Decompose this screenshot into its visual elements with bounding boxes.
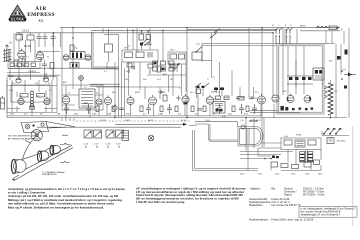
- component blob right: [337, 50, 348, 89]
- spec framed box: [299, 207, 357, 218]
- tuning gang C41: [106, 130, 124, 148]
- tube V13 IF amp: [104, 95, 111, 104]
- wire grid row y60: [37, 52, 180, 88]
- tube V18 AF: [206, 95, 213, 104]
- drive pulley big: [31, 130, 42, 141]
- voltage adjust panel: [327, 138, 346, 144]
- output transformer dark cluster: [250, 106, 300, 113]
- wire mesh left box: [7, 80, 57, 116]
- electrolytic block C30: [313, 68, 324, 80]
- padder grid: [147, 61, 186, 92]
- resistor box group A: [8, 62, 40, 69]
- dial pointer lines: [37, 123, 187, 127]
- wire top right mains: [300, 30, 340, 32]
- svg-text:ULTRA: ULTRA: [11, 18, 24, 22]
- wire y68: [8, 67, 118, 69]
- wire heater rail double: [202, 44, 335, 46]
- svg-text:m. stk. indbygningsplan, skrak: m. stk. indbygningsplan, skraktlængde 50…: [301, 207, 356, 210]
- wire vertical x273: [272, 33, 274, 96]
- wire output stage links: [214, 28, 296, 99]
- svg-text:Projektionslamper: Projektionslamper: [249, 219, 268, 222]
- pointer spring: [60, 135, 71, 172]
- wire vertical x137: [136, 28, 138, 52]
- speaker assembly: [238, 127, 263, 147]
- svg-text:EBC3: EBC3: [160, 92, 166, 94]
- notes block A: [8, 188, 126, 210]
- title AIR EMPRESS 822: [27, 6, 55, 22]
- terminal labels row: [240, 174, 322, 176]
- osc coil box T2: [62, 85, 103, 110]
- wire vertical x285 x297: [285, 29, 297, 43]
- resistor R1: [16, 33, 23, 44]
- resistor R5: [50, 63, 54, 69]
- wire psu links: [240, 31, 344, 171]
- wire chassis bus: [7, 116, 347, 118]
- wire grid couplings: [7, 33, 60, 80]
- resistor R8: [70, 45, 78, 51]
- wire vertical x7: [6, 80, 8, 118]
- tube V1 triode-hexode: [18, 49, 26, 59]
- aerial coil L1: [3, 45, 12, 62]
- svg-text:W.C: W.C: [84, 103, 88, 105]
- mains transformer T10: [264, 151, 313, 164]
- svg-text:200v: 200v: [291, 174, 295, 176]
- tube V16: [182, 94, 189, 104]
- spec labels column: [249, 188, 271, 222]
- detector diode parts: [158, 90, 181, 101]
- svg-text:SET VED MIDTERSTILLING: SET VED MIDTERSTILLING: [8, 136, 36, 138]
- tube V7: [44, 97, 50, 105]
- tube V20: [272, 95, 279, 102]
- label L4: [8, 71, 48, 79]
- svg-text:EL3N: EL3N: [181, 120, 187, 122]
- tube V11: [63, 55, 69, 61]
- wire right edge x349: [348, 28, 350, 118]
- tube V6: [29, 105, 34, 110]
- wire verticals x118-124: [104, 35, 125, 118]
- svg-text:Evt. senere Fersko (fra P30A 8: Evt. senere Fersko (fra P30A 83 B: [301, 210, 342, 213]
- svg-text:110-245v: 110-245v: [337, 141, 347, 143]
- grid components between stages: [126, 63, 175, 76]
- wire AVC rail: [16, 32, 273, 34]
- svg-text:AZ31: AZ31: [256, 119, 262, 122]
- svg-text:AVC: AVC: [163, 73, 168, 76]
- IF transformer T4 box: [122, 50, 158, 62]
- anode components row2: [211, 88, 254, 114]
- coupling coil small: [70, 63, 79, 69]
- svg-text:AFBR.: AFBR.: [300, 25, 307, 28]
- svg-text:2M: 2M: [125, 79, 128, 81]
- wire vertical x202: [201, 43, 203, 62]
- tube V8 mixer: [62, 94, 70, 104]
- svg-text:DREVAKSLEN: DREVAKSLEN: [42, 173, 57, 176]
- svg-text:L4 470: L4 470: [28, 71, 36, 74]
- notes block B: [136, 187, 247, 204]
- tube V4: [43, 76, 48, 83]
- bandfilter can T3: [70, 52, 85, 60]
- svg-text:er vist i stilling i Grammofon: er vist i stilling i Grammofon.: [8, 192, 46, 195]
- capacitor C3: [51, 33, 56, 43]
- wave switch S2 contacts top: [275, 28, 292, 44]
- svg-text:EBF2: EBF2: [125, 120, 131, 122]
- svg-text:net: net: [343, 68, 346, 71]
- gang link dashed: [76, 120, 190, 122]
- svg-text:: Rør: : Rør: [270, 188, 276, 191]
- svg-text:Anbringes på CH 100, RF 100, 1: Anbringes på CH 100, RF 100, 100 omdr. o…: [8, 195, 118, 198]
- bandswitch frame corner: [90, 32, 120, 86]
- wire vertical x60: [61, 28, 63, 85]
- drum knob B: [38, 151, 49, 161]
- svg-text:4 µF: 4 µF: [284, 136, 289, 138]
- svg-text:1M: 1M: [108, 114, 111, 116]
- tube V12: [85, 55, 91, 61]
- tube V9: [96, 99, 102, 105]
- wire vertical x21: [16, 33, 21, 40]
- svg-text:C.B: C.B: [240, 120, 244, 122]
- tube V2: [36, 50, 44, 60]
- svg-text:ECH4: ECH4: [100, 120, 106, 122]
- indicator tube V10: [79, 76, 84, 81]
- svg-text:den målte måleside ca. på LK W: den målte måleside ca. på LK Watt. I kre…: [8, 203, 115, 206]
- wire vertical x103: [102, 28, 104, 33]
- output box corner: [193, 130, 259, 171]
- capacitor row mid: [64, 104, 257, 114]
- svg-text:150v: 150v: [275, 174, 279, 176]
- wave switch S1a: [141, 39, 151, 46]
- trimmer box hatched: [122, 131, 129, 141]
- drum knob C: [50, 145, 61, 154]
- label row top-left: [9, 30, 31, 48]
- svg-text:Målinger på 1 og 2 Watt er ans: Målinger på 1 og 2 Watt er anstillede me…: [8, 199, 123, 202]
- wire vertical x262 double: [262, 28, 264, 147]
- page edge shadow: [352, 126, 354, 226]
- wire vertical x150: [149, 28, 151, 50]
- wire HT rail top: [60, 28, 340, 30]
- tube V22 rectifier2: [304, 96, 311, 103]
- scattered value labels: [9, 31, 346, 138]
- svg-text:skraktlængde 37 mm (Tonearm) f: skraktlængde 37 mm (Tonearm) f.: [301, 213, 341, 216]
- coupling cluster mid: [196, 86, 204, 116]
- dial lamp LP1: [148, 135, 154, 141]
- switch S3 mains selector: [322, 128, 349, 135]
- svg-text:CBL6: CBL6: [205, 120, 211, 122]
- wire IF can drops: [107, 62, 274, 118]
- wire osc box verticals: [62, 80, 103, 117]
- tube V21 rectifier: [287, 94, 294, 103]
- svg-text:822: 822: [39, 19, 44, 23]
- svg-text:Anmærkning: og grammofonomskif: Anmærkning: og grammofonomskifteren, ide…: [8, 188, 126, 191]
- diode D1: [341, 70, 356, 80]
- tube V3: [16, 77, 21, 84]
- wire vertical x122: [127, 28, 129, 50]
- svg-text:220v: 220v: [305, 174, 309, 176]
- drum knob A: [11, 160, 26, 174]
- PSU lower components: [240, 148, 321, 171]
- wire vertical x73: [72, 28, 74, 85]
- svg-text:0,5M: 0,5M: [158, 114, 163, 116]
- tuning gang C40: [84, 130, 102, 148]
- tube V14: [127, 96, 134, 105]
- switch position labels: [272, 25, 292, 27]
- tube type labels under bus: [100, 79, 262, 122]
- capacitor C1: [37, 33, 42, 43]
- staircase wiring: [195, 122, 238, 142]
- extra top components: [105, 30, 136, 68]
- coupling parts under V1: [14, 58, 41, 67]
- wire vertical x115: [114, 62, 116, 118]
- svg-text:2M: 2M: [57, 114, 60, 116]
- nested chassis box right: [277, 44, 324, 114]
- svg-text:Statron ˝: Statron ˝: [284, 194, 293, 197]
- small circle node: [241, 125, 245, 129]
- resistor R2: [27, 33, 34, 44]
- tube V5: [18, 97, 24, 105]
- tube V15 detector: [149, 95, 157, 105]
- svg-text:1M: 1M: [35, 83, 38, 85]
- svg-text:245v: 245v: [318, 174, 322, 176]
- wire vertical x187: [186, 28, 188, 118]
- IF T1 winding: [30, 91, 33, 109]
- wire vertical x163: [162, 30, 164, 62]
- svg-text:125v: 125v: [258, 174, 262, 176]
- resistor cluster row mid: [96, 106, 249, 112]
- svg-text:osc: osc: [84, 87, 87, 89]
- mains dropper R20: [316, 26, 339, 29]
- capacitor C4: [42, 60, 47, 69]
- cord arrow: [12, 170, 60, 181]
- svg-text:MT D 5093 – 3 Ohm: MT D 5093 – 3 Ohm: [303, 194, 325, 197]
- IF transformer T1 box: [7, 73, 57, 113]
- value labels row: [10, 114, 248, 116]
- chassis pictorial frame: [21, 122, 75, 133]
- spec values column: [270, 188, 325, 222]
- resistor R7: [37, 94, 45, 98]
- tube V19 output: [258, 94, 266, 104]
- volume pot P1: [0, 96, 5, 109]
- wire vertical x326 x332 x342: [326, 28, 342, 44]
- svg-text:1 Tale 88° uten 2000 c Hz strø: 1 Tale 88° uten 2000 c Hz strømforsyning…: [136, 201, 185, 204]
- decoupling column: [128, 30, 152, 50]
- pot circle: [113, 104, 117, 110]
- svg-text:EMPRESS: EMPRESS: [27, 12, 55, 18]
- svg-text:C1 0,1: C1 0,1: [22, 30, 30, 33]
- svg-text:: Lab. Fersko (fra P30 83: 78: : Lab. Fersko (fra P30 83: 78: [270, 204, 301, 207]
- gang link drops: [62, 103, 88, 121]
- IF transformer T5 box: [168, 52, 186, 64]
- coil box T6: [192, 52, 202, 60]
- svg-text:PRIM.: PRIM.: [296, 135, 302, 137]
- resistor R6: [20, 94, 28, 98]
- svg-text:Pladespillere: Pladespillere: [249, 204, 263, 207]
- fuse F1: [300, 25, 337, 30]
- rail second top: [91, 29, 276, 31]
- label HP: [249, 121, 258, 123]
- capacitor C2: [43, 33, 48, 43]
- svg-text:Højttalere: Højttalere: [250, 188, 261, 191]
- svg-text:: Fersko 2000+c laxm, vogl, ac: : Fersko 2000+c laxm, vogl, ac. 12 38 08…: [270, 219, 314, 222]
- svg-text:110v: 110v: [240, 174, 244, 176]
- svg-text:1M: 1M: [170, 79, 173, 81]
- cord run: [14, 140, 73, 181]
- PSU box upper: [281, 138, 321, 150]
- wire vertical x211: [202, 33, 216, 79]
- svg-text:EBC3: EBC3: [148, 120, 154, 122]
- Ultra logo: [8, 5, 26, 21]
- svg-text:Max og P såvidt. Deklareret en: Max og P såvidt. Deklareret en henregnet…: [8, 206, 104, 209]
- svg-text:højttaler: højttaler: [189, 124, 197, 127]
- label pictorial: [8, 136, 39, 143]
- dropper zigzag chain R21: [325, 80, 334, 118]
- switch S1b: [195, 29, 220, 53]
- svg-text:EBF2: EBF2: [135, 92, 141, 94]
- svg-text:R1 2M: R1 2M: [24, 45, 31, 48]
- gram switch detail: [195, 83, 209, 88]
